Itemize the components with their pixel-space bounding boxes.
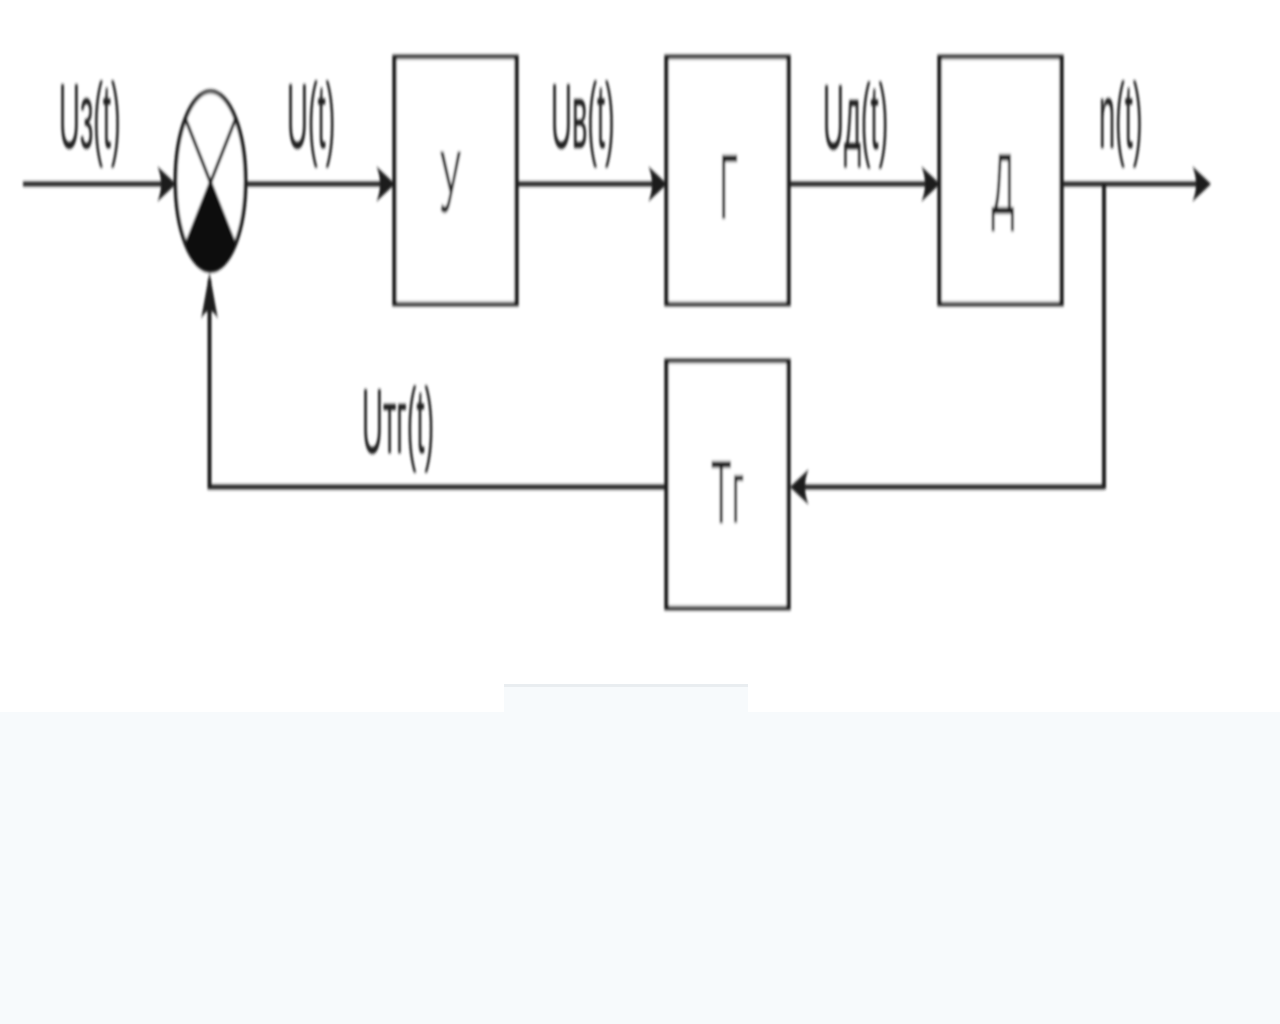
wire: branch down from output node: [1102, 184, 1106, 489]
arrowhead output: [1193, 167, 1212, 202]
svg-text:Д: Д: [991, 136, 1014, 233]
block U1: amplifier У: [395, 57, 517, 304]
svg-text:U(t): U(t): [287, 64, 335, 168]
wire: feedback right segment into Тг: [796, 485, 1104, 490]
wire: input line Uз(t): [23, 182, 170, 187]
wire: feedback vertical up to summing junction: [208, 280, 212, 489]
svg-text:У: У: [439, 133, 461, 232]
arrowhead into block Д: [922, 167, 941, 202]
wire: summing junction to block У: [245, 182, 389, 187]
svg-text:Тг: Тг: [711, 442, 744, 542]
svg-text:n(t): n(t): [1099, 64, 1142, 168]
arrowhead into block У: [377, 167, 396, 202]
block U3: motor Д: [940, 57, 1062, 304]
wire: block У to block Г: [517, 182, 662, 187]
block U4: tachogenerator Тг: [667, 361, 789, 608]
svg-text:Uз(t): Uз(t): [59, 64, 121, 168]
wire: block Г to block Д: [789, 182, 935, 187]
svg-text:Uд(t): Uд(t): [823, 65, 888, 169]
arrowhead into block Г: [649, 167, 668, 202]
small light tab above panel: [504, 684, 748, 714]
summing junction diagonal 2: [186, 119, 236, 246]
bottom light panel: [0, 712, 1280, 1024]
summing junction diagonal 1: [186, 119, 236, 246]
wire: output n(t): [1062, 182, 1206, 187]
svg-text:Uтг(t): Uтг(t): [362, 369, 434, 473]
svg-text:Г: Г: [719, 135, 738, 238]
summing junction black bottom sector: [186, 183, 235, 272]
arrowhead into block Тг: [790, 470, 809, 505]
arrowhead into summing junction: [158, 167, 177, 202]
block U2: generator Г: [667, 57, 789, 304]
arrowhead into summing junction bottom: [201, 273, 218, 319]
summing junction SJ1 (comparator ellipse): [176, 92, 246, 271]
svg-text:Uв(t): Uв(t): [551, 64, 615, 168]
wire: feedback left segment from Тг: [208, 485, 667, 490]
